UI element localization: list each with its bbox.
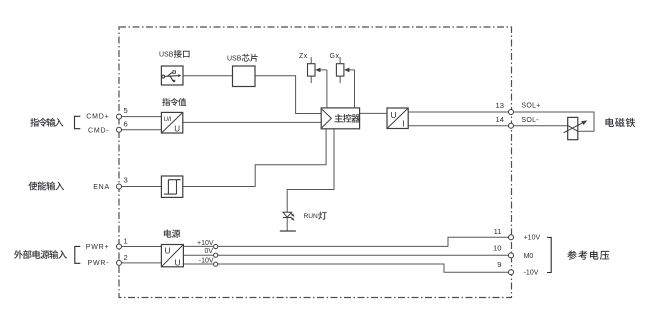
USB chip box <box>233 66 256 87</box>
potentiometer Zx <box>308 57 327 108</box>
svg-text:U/I: U/I <box>164 116 172 123</box>
label RUN lamp (RUN灯) <box>304 211 327 220</box>
wire pin 13 SOL+ to solenoid <box>513 112 594 131</box>
terminal pin 2 PWR- <box>117 260 122 265</box>
svg-text:6: 6 <box>124 119 128 128</box>
terminal pin 5 CMD+ <box>117 114 122 119</box>
USB port box with USB icon <box>161 66 183 85</box>
proportional solenoid symbol <box>564 117 588 139</box>
svg-text:U: U <box>175 257 181 267</box>
wire pin 3 ENA to schmitt trigger <box>121 186 161 188</box>
test point -10V <box>214 262 218 266</box>
svg-text:14: 14 <box>496 115 504 124</box>
svg-text:ENA: ENA <box>93 184 110 191</box>
label enable input (使能输入) <box>28 182 64 191</box>
svg-text:5: 5 <box>124 106 128 115</box>
power supply U/U converter box <box>161 245 183 268</box>
svg-text:PWR+: PWR+ <box>86 244 110 251</box>
svg-text:+10V: +10V <box>524 235 541 242</box>
terminal pin 10 M0 <box>509 253 514 258</box>
svg-text:SOL-: SOL- <box>521 117 539 124</box>
terminal pin 6 CMD- <box>117 127 122 132</box>
svg-text:Zx: Zx <box>299 53 308 60</box>
wire USB chip to main controller <box>255 76 321 114</box>
wire +10V rail to pin 11 <box>183 237 508 246</box>
svg-text:U: U <box>391 110 397 120</box>
wire 0V rail to pin 10 <box>183 254 508 256</box>
wire main controller to RUN LED <box>287 129 334 213</box>
U/I output converter box <box>387 108 408 129</box>
svg-text:USB: USB <box>159 52 174 59</box>
svg-text:USB: USB <box>227 56 242 63</box>
label external power input (外部电源输入) <box>14 250 67 259</box>
svg-text:3: 3 <box>124 176 128 185</box>
svg-text:CMD+: CMD+ <box>86 113 109 120</box>
wire pin 14 SOL- to solenoid <box>513 125 567 127</box>
wire command-value converter to main controller <box>183 121 321 123</box>
svg-text:SOL+: SOL+ <box>521 103 540 110</box>
svg-text:-10V: -10V <box>199 257 214 264</box>
wire pin 6 CMD- to command-value converter <box>121 129 161 131</box>
enable schmitt trigger box <box>161 176 182 197</box>
svg-text:9: 9 <box>497 260 501 269</box>
command value U/I-U converter box <box>161 112 182 133</box>
terminal pin 13 SOL+ <box>509 110 514 115</box>
wire U/I converter to pin 14 SOL- <box>408 125 509 127</box>
wire USB port to USB chip <box>183 75 233 77</box>
terminal pin 14 SOL- <box>509 123 514 128</box>
wire U/I converter to pin 13 SOL+ <box>408 111 509 113</box>
bracket power input <box>75 246 81 263</box>
svg-text:-10V: -10V <box>524 270 539 277</box>
test point 0V <box>214 253 218 257</box>
bracket reference voltage <box>547 237 551 272</box>
svg-text:1: 1 <box>124 237 128 246</box>
label USB interface (USB接口) <box>159 50 190 59</box>
label command input (指令输入) <box>30 118 63 127</box>
svg-text:10: 10 <box>493 243 501 252</box>
svg-text:I: I <box>402 118 404 128</box>
label solenoid (电磁铁) <box>605 118 635 127</box>
label power supply (电源) <box>164 229 181 237</box>
wire pin 1 PWR+ to power supply <box>121 246 161 248</box>
wire schmitt trigger to main controller <box>183 129 326 187</box>
svg-text:CMD-: CMD- <box>88 127 109 134</box>
RUN LED with ground <box>280 212 296 231</box>
wire pin 5 CMD+ to command-value converter <box>121 116 161 118</box>
label reference voltage (参考电压) <box>567 250 609 259</box>
svg-text:+10V: +10V <box>197 240 214 247</box>
controller enclosure dashed border <box>119 27 512 298</box>
wire -10V rail to pin 9 <box>183 264 508 272</box>
svg-text:U: U <box>165 246 171 256</box>
svg-text:RUN: RUN <box>304 213 319 220</box>
bracket command input <box>75 116 81 128</box>
terminal pin 11 +10V <box>509 235 514 240</box>
terminal pin 9 -10V <box>509 270 514 275</box>
potentiometer Gx <box>336 57 354 108</box>
svg-text:0V: 0V <box>204 248 213 255</box>
svg-text:11: 11 <box>494 227 502 236</box>
svg-text:M0: M0 <box>524 253 534 260</box>
wire pin 2 PWR- to power supply <box>121 262 161 264</box>
svg-text:Gx: Gx <box>330 53 340 60</box>
wire main controller to U/I converter <box>360 112 387 114</box>
terminal pin 1 PWR+ <box>117 244 122 249</box>
test point +10V <box>214 244 218 248</box>
svg-text:U: U <box>174 125 180 134</box>
main controller box <box>321 108 360 129</box>
label command value (指令值) <box>162 98 186 106</box>
svg-text:13: 13 <box>496 101 504 110</box>
svg-text:PWR-: PWR- <box>88 260 110 267</box>
label USB chip (USB芯片) <box>227 54 258 63</box>
svg-text:2: 2 <box>124 253 128 262</box>
terminal pin 3 ENA <box>117 184 122 189</box>
